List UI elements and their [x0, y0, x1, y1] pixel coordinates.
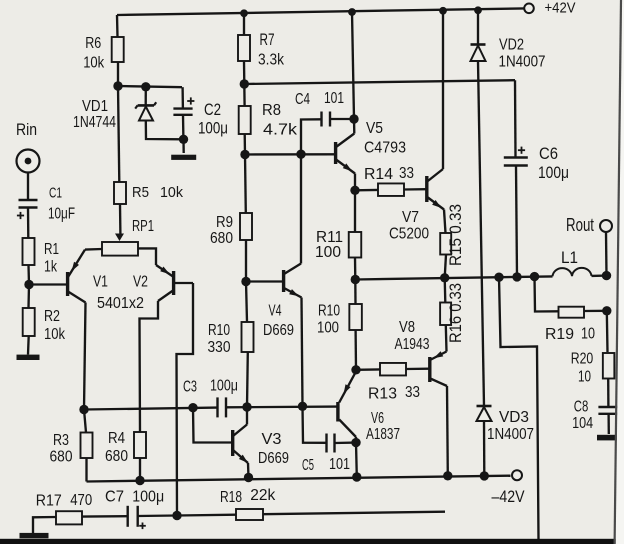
svg-text:R16 0.33: R16 0.33 — [447, 283, 465, 343]
svg-text:101: 101 — [324, 90, 344, 107]
svg-text:R9: R9 — [216, 214, 233, 231]
svg-text:RP1: RP1 — [132, 218, 154, 235]
svg-text:680: 680 — [50, 449, 73, 466]
svg-text:C7: C7 — [105, 489, 124, 506]
svg-text:R1: R1 — [44, 241, 59, 258]
svg-text:V7: V7 — [402, 209, 419, 226]
svg-text:V8: V8 — [399, 319, 415, 336]
svg-text:1N4744: 1N4744 — [73, 114, 116, 131]
svg-text:R15 0.33: R15 0.33 — [447, 204, 465, 266]
svg-text:R8: R8 — [262, 102, 281, 119]
svg-text:R3: R3 — [53, 432, 69, 449]
svg-text:C8: C8 — [574, 399, 589, 416]
svg-text:1k: 1k — [44, 259, 57, 276]
svg-text:R7: R7 — [260, 31, 275, 49]
svg-text:C4793: C4793 — [364, 140, 406, 157]
svg-text:10: 10 — [581, 326, 595, 343]
svg-text:22k: 22k — [250, 487, 276, 504]
svg-text:Rin: Rin — [16, 120, 37, 139]
svg-text:R5: R5 — [132, 184, 149, 201]
svg-text:1N4007: 1N4007 — [487, 426, 534, 443]
svg-text:R4: R4 — [108, 430, 125, 447]
svg-text:Rout: Rout — [566, 215, 594, 235]
svg-text:A1837: A1837 — [366, 426, 400, 443]
svg-text:A1943: A1943 — [395, 336, 430, 353]
svg-text:680: 680 — [210, 230, 233, 247]
svg-text:VD1: VD1 — [82, 98, 108, 115]
svg-text:4.7k: 4.7k — [263, 122, 298, 139]
svg-text:100μ: 100μ — [132, 489, 164, 506]
svg-text:10: 10 — [578, 369, 591, 386]
svg-text:5401x2: 5401x2 — [97, 295, 144, 312]
svg-text:330: 330 — [208, 339, 231, 356]
svg-text:V6: V6 — [371, 410, 384, 427]
svg-text:–42V: –42V — [492, 488, 525, 506]
svg-text:104: 104 — [572, 415, 593, 432]
svg-text:R13: R13 — [368, 386, 397, 403]
svg-text:V3: V3 — [262, 431, 282, 448]
svg-text:C2: C2 — [204, 101, 221, 119]
svg-text:R14: R14 — [364, 166, 393, 183]
svg-text:33: 33 — [399, 165, 414, 182]
svg-text:C3: C3 — [183, 379, 197, 396]
svg-text:R10: R10 — [208, 322, 230, 339]
svg-text:R6: R6 — [85, 35, 101, 52]
svg-text:C5: C5 — [302, 457, 314, 474]
svg-text:10μF: 10μF — [48, 206, 75, 223]
svg-text:R20: R20 — [571, 351, 594, 368]
svg-text:V5: V5 — [366, 120, 383, 137]
svg-text:680: 680 — [105, 448, 128, 465]
svg-text:L1: L1 — [561, 249, 578, 267]
svg-text:100μ: 100μ — [210, 378, 238, 395]
svg-text:C1: C1 — [49, 185, 62, 202]
svg-text:1N4007: 1N4007 — [499, 54, 546, 71]
svg-text:C4: C4 — [295, 91, 310, 108]
svg-text:10k: 10k — [160, 184, 183, 201]
svg-text:470: 470 — [70, 492, 92, 509]
svg-text:10k: 10k — [44, 326, 66, 343]
svg-text:100μ: 100μ — [198, 120, 228, 138]
svg-text:R2: R2 — [44, 308, 60, 325]
svg-text:C6: C6 — [539, 145, 558, 163]
svg-text:V2: V2 — [133, 274, 148, 291]
svg-text:100: 100 — [315, 244, 341, 261]
svg-text:R17: R17 — [36, 493, 62, 510]
svg-text:101: 101 — [329, 456, 350, 473]
svg-text:33: 33 — [405, 384, 420, 401]
svg-text:R10: R10 — [318, 303, 340, 320]
svg-text:C5200: C5200 — [389, 226, 429, 243]
svg-text:R19: R19 — [545, 326, 574, 343]
svg-text:VD2: VD2 — [499, 37, 524, 54]
svg-text:D669: D669 — [263, 322, 294, 339]
svg-text:VD3: VD3 — [499, 409, 529, 426]
svg-text:V1: V1 — [93, 274, 108, 291]
svg-text:3.3k: 3.3k — [258, 52, 285, 69]
svg-text:R18: R18 — [220, 489, 242, 506]
svg-text:D669: D669 — [258, 450, 289, 467]
svg-text:100μ: 100μ — [538, 164, 569, 182]
svg-text:V4: V4 — [269, 303, 282, 320]
svg-text:+42V: +42V — [545, 0, 576, 17]
svg-text:10k: 10k — [83, 55, 105, 72]
svg-text:100: 100 — [317, 320, 339, 337]
